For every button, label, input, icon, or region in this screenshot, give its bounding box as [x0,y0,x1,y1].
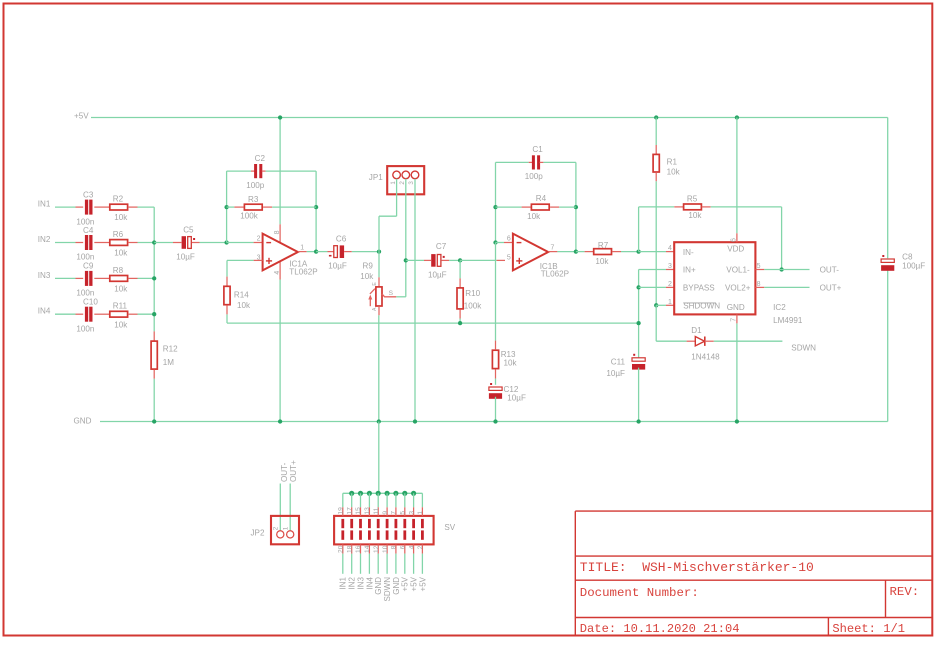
pin SV 20 bar [341,530,344,539]
junction SV bus pin 17 [349,491,354,496]
pin IC2 5 VOL1- [755,269,764,271]
pin R7 left [585,251,594,253]
pin SV 7 bar [395,519,398,528]
svg-text:9: 9 [382,511,389,515]
wire IC1B out [557,251,576,253]
svg-text:4: 4 [274,271,281,275]
pin R1 top [655,145,657,154]
svg-text:R5: R5 [687,195,698,204]
resistor R10 [457,288,463,309]
pin C6 right [344,251,352,253]
pin SV 6 bottom [404,544,406,553]
resistor R6 [110,240,128,246]
wire C1 top right [543,161,576,163]
pin C2 left [251,170,255,172]
pin D1 anode [687,340,696,342]
wire JP1 pin1 to pot top [396,179,398,217]
wire feedback right vertical [315,171,317,252]
svg-text:C10: C10 [83,298,98,307]
title block frame [574,511,576,635]
wire bus to SV pin 1 [421,493,423,507]
svg-text:IN2: IN2 [348,576,357,589]
junction C7 R10 IC1B+ [458,258,462,262]
pin C2 right [262,170,266,172]
wire R7 to IN- node [621,251,639,253]
svg-text:R11: R11 [113,302,128,311]
pin SV 17 top [351,507,353,516]
wire SV pin 18 to IN2 [351,554,353,574]
pin SV 2 bottom [421,544,423,553]
wire JP1 pin3 to GND [414,179,416,422]
pin R12 bottom [153,370,155,379]
wire OUT+ net [764,286,809,288]
pin SV 18 bar [350,530,353,539]
junction IC1B out feedback [574,249,578,253]
pin R7 right [612,251,621,253]
wire R13 to C12 [495,379,497,385]
capacitor C9 [85,271,88,286]
svg-text:IN1: IN1 [339,576,348,589]
connector JP1 [387,166,424,194]
pin SV 3 top [413,507,415,516]
resistor R8 [110,276,128,282]
wire +5V to VDD [736,118,738,234]
svg-text:Document Number:: Document Number: [580,586,699,600]
junction C6 JP1 R9 [377,249,381,253]
pin SV 6 bar [403,530,406,539]
svg-text:A: A [372,307,378,311]
junction IC2 GND rail [735,419,739,423]
wire to C7 [406,259,424,261]
svg-text:OUT-: OUT- [820,266,840,275]
svg-text:10k: 10k [114,249,128,258]
wire IC1B- down to R13 [495,243,497,341]
pin IC1A 2 [254,242,263,244]
svg-text:SV: SV [444,523,455,532]
pin R13 top [495,341,497,350]
wire R12 to GND [153,379,155,422]
svg-text:+5V: +5V [410,576,419,591]
svg-text:VDD: VDD [727,245,744,254]
svg-text:LM4991: LM4991 [773,316,803,325]
svg-text:10µF: 10µF [328,262,347,271]
svg-text:7: 7 [391,511,398,515]
junction R3 right [314,205,318,209]
junction C12 GND [493,419,497,423]
wire C2 top right [266,170,317,172]
pin IC1B 5 [497,259,505,261]
pin SV 18 bottom [351,544,353,553]
svg-text:19: 19 [338,507,345,515]
resistor R3 [244,204,262,210]
svg-text:10µF: 10µF [507,394,526,403]
pin R14 top [226,277,228,286]
pin C1 left [529,161,533,163]
svg-text:10µF: 10µF [428,270,447,279]
svg-text:SDWN: SDWN [383,577,392,602]
svg-text:C9: C9 [83,262,94,271]
svg-text:JP1: JP1 [369,173,383,182]
svg-text:13: 13 [364,507,371,515]
svg-text:10k: 10k [595,257,609,266]
svg-text:2: 2 [399,181,406,185]
junction IC1A out feedback [314,249,318,253]
junction C11 GND [636,419,640,423]
pin SV 12 bar [377,530,380,539]
wire IN- to pin4 [639,251,666,253]
junction IC1B- node [493,240,497,244]
wire R3 to feedback right [272,206,316,208]
svg-text:1: 1 [390,181,397,185]
wire SV ground bus [343,492,423,494]
capacitor C6 (polarized) [334,246,338,258]
resistor R4 [531,204,549,210]
pin SV 17 bar [350,519,353,528]
pin SV 10 bottom [386,544,388,553]
svg-text:R1: R1 [667,158,678,167]
svg-text:10k: 10k [114,213,128,222]
wire R1 node down to D1 [655,305,657,341]
pin SV 16 bar [359,530,362,539]
pin R5 left [674,206,683,208]
pin C10-R11 [94,313,109,315]
svg-text:C1: C1 [532,145,543,154]
junction JP1-2 C7 wiper [404,258,408,262]
pin SV 10 bar [386,530,389,539]
svg-text:3: 3 [408,181,415,185]
svg-text:R8: R8 [113,266,124,275]
junction JP1-3 GND [413,419,417,423]
svg-text:R9: R9 [363,262,374,271]
svg-text:10k: 10k [688,211,702,220]
wire IC2 GND pin to GND rail [736,323,738,421]
pin R13 bottom [495,370,497,379]
capacitor C4 [85,235,88,250]
wire bus to SV pin 7 [395,493,397,507]
wire C5 to IC1A- node [200,242,227,244]
wire SV pin 16 to IN3 [360,554,362,574]
wire D1 to SDWN [714,340,783,342]
svg-text:10k: 10k [360,272,374,281]
wire feedback left vertical [226,171,228,242]
junction SV bus pin 7 [393,491,398,496]
resistor R5 [684,204,702,210]
svg-text:4: 4 [668,245,672,252]
pin JP1 3 pad [411,171,419,179]
svg-text:7: 7 [551,244,555,251]
resistor R12 [151,341,157,369]
pin IC1A 1 [298,251,307,253]
pin R10 top [459,278,461,287]
connector SV [334,516,434,545]
svg-text:1: 1 [300,244,304,251]
svg-text:C7: C7 [436,242,447,251]
wire C11 to GND [638,368,640,422]
resistor R14 [224,286,230,304]
wire SV pin 14 to IN4 [368,554,370,574]
pin C4-R6 [94,242,109,244]
svg-text:TITLE: WSH-Mischverstärker-10: TITLE: WSH-Mischverstärker-10 [580,560,814,575]
svg-text:1: 1 [283,526,290,530]
wire feedback right vertical [575,162,577,251]
svg-text:JP2: JP2 [251,529,265,538]
pin C1 right [540,161,544,163]
wire R10 top [459,260,461,278]
svg-text:100k: 100k [464,302,483,311]
svg-text:+5V: +5V [401,576,410,591]
wire R1 to SHDOWN [655,181,657,305]
junction mix bus IN2 [152,240,156,244]
svg-text:GND: GND [74,416,92,425]
svg-text:1: 1 [668,299,672,306]
pin SV 14 bar [368,530,371,539]
svg-text:2: 2 [257,235,261,242]
svg-text:1: 1 [417,511,424,515]
junction mix bus IN4 [152,312,156,316]
wire C1 top left [496,161,529,163]
svg-text:10: 10 [382,545,389,553]
pin SV 19 bar [341,519,344,528]
svg-text:R14: R14 [234,291,249,300]
wire bus to SV pin 9 [386,493,388,507]
svg-text:OUT-: OUT- [280,462,289,482]
svg-text:16: 16 [355,545,362,553]
wire pot top to R9 [378,252,380,278]
pin SV 11 top [377,507,379,516]
svg-text:IN4: IN4 [38,307,51,316]
pin SV 19 top [342,507,344,516]
pin R5 right [702,206,711,208]
pin SV 16 bottom [360,544,362,553]
wire bus to SV pin 15 [360,493,362,507]
wire R5 left [639,206,675,208]
svg-text:OUT+: OUT+ [289,460,298,482]
pin C9-R8 [94,277,109,279]
svg-text:4: 4 [408,545,415,549]
junction SV bus pin 5 [402,491,407,496]
svg-text:VOL1-: VOL1- [726,266,750,275]
pin C9 left [76,277,84,279]
svg-text:R2: R2 [113,195,124,204]
wire IN+ from bias vertical [639,269,666,271]
wire SV pin 10 to SDWN [386,554,388,574]
pin R14 bottom [226,305,228,314]
wire to R3 [227,206,235,208]
svg-text:6: 6 [400,545,407,549]
svg-text:R3: R3 [248,195,259,204]
pin C5 right [192,242,200,244]
wire to R4 [496,206,522,208]
svg-text:5: 5 [507,255,511,262]
junction R12 GND [152,419,156,423]
pin IC2 6 VDD [736,233,738,242]
pin R2 right [128,206,138,208]
svg-text:6: 6 [507,235,511,242]
pin R10 bottom [459,309,461,318]
svg-text:20: 20 [338,545,345,553]
wire OUT+ to JP2-1 [289,484,291,531]
junction +5V R1 [654,115,658,119]
junction R10 bias [458,321,462,325]
wire bus to SV pin 3 [413,493,415,507]
pin IC2 1 [666,304,674,306]
wire C7 out [449,259,460,261]
wire bus to C5 [154,242,173,244]
junction SV bus pin 13 [367,491,372,496]
wire BYPASS to pin2 [639,286,666,288]
junction +5V IC1A supply [278,115,282,119]
capacitor C5 (polarized) [182,236,186,249]
pin SV 20 bottom [342,544,344,553]
wire SV pin 8 to GND [395,554,397,574]
svg-text:GND: GND [392,577,401,595]
svg-text:10k: 10k [237,301,251,310]
wire out to C6 [316,251,327,253]
wire +5V rail [91,117,888,119]
wire to D1 [656,340,686,342]
svg-text:14: 14 [364,545,371,553]
pin SV 13 top [368,507,370,516]
junction SV bus pin 9 [385,491,390,496]
resistor R2 [110,204,128,210]
wire C12 to GND [495,397,497,422]
capacitor C7 (polarized) [431,254,435,267]
wire R10 to bias line [459,319,461,324]
wire IC1A+ left [227,259,254,261]
resistor R11 [110,311,128,317]
wire IN2 to C4 [55,242,76,244]
wire SV pin 6 to +5V [404,554,406,574]
svg-text:C2: C2 [255,154,266,163]
svg-text:8: 8 [274,230,281,234]
svg-text:IN2: IN2 [38,235,51,244]
pin SV 9 top [386,507,388,516]
junction IN- node [636,249,640,253]
amplifier IC2 [674,242,755,314]
svg-text:3: 3 [408,511,415,515]
svg-text:18: 18 [346,545,353,553]
svg-text:100p: 100p [246,181,265,190]
svg-text:8: 8 [391,545,398,549]
pin IC1B 6 [504,242,513,244]
pin SV 8 bottom [395,544,397,553]
svg-text:REV:: REV: [890,585,920,599]
svg-text:Sheet: 1/1: Sheet: 1/1 [832,622,905,636]
pin IC2 4 [666,251,674,253]
pin R9 top [378,277,380,287]
wire GND rail [100,421,888,423]
svg-text:OUT+: OUT+ [820,284,842,293]
junction bias line C11 [636,321,640,325]
svg-text:BYPASS: BYPASS [683,284,715,293]
pin R6 right [128,242,138,244]
wire bus to SV pin 11 [377,493,379,507]
svg-text:R7: R7 [598,241,609,250]
pin D1 cathode [705,340,714,342]
svg-text:10k: 10k [667,167,681,176]
capacitor C12 (polarized) [489,387,502,390]
svg-text:12: 12 [373,545,380,553]
pin R4 right [550,206,559,208]
svg-text:IN3: IN3 [356,576,365,589]
pin IC1B 7 [548,251,557,253]
pin JP1 2 pad [402,171,410,179]
svg-text:IN3: IN3 [38,271,51,280]
wire IC1A V+ from +5V rail [279,118,281,225]
wire SV pin 2 to +5V [421,554,423,574]
svg-text:E: E [372,282,378,286]
svg-text:Date: 10.11.2020 21:04: Date: 10.11.2020 21:04 [580,622,740,636]
pin SV 13 bar [368,519,371,528]
wire +5V rail down to C8 [887,118,889,259]
pin R4 left [522,206,531,208]
wire node to IC1A pin2 [227,242,254,244]
pin SV 8 bar [395,530,398,539]
wire bus to SV pin 19 [342,493,344,507]
svg-text:10µF: 10µF [176,253,195,262]
svg-text:TL062P: TL062P [541,269,569,278]
wire R11 to mix bus [138,313,155,315]
wire IN4 to C10 [55,313,76,315]
svg-text:10k: 10k [114,285,128,294]
pin R3 right [263,206,272,208]
wire IC1B feedback left vertical [495,162,497,242]
junction SHDOWN R1 D1 [654,303,658,307]
pin C6 left [328,251,334,253]
wire R5 right to VOL1- [711,206,782,208]
svg-text:3: 3 [668,263,672,270]
pin R12 top [153,331,155,340]
svg-text:IN+: IN+ [683,266,696,275]
svg-text:10k: 10k [527,212,541,221]
junction mix bus IN3 [152,276,156,280]
pin R9 bottom [378,306,380,315]
pin SV 15 top [360,507,362,516]
svg-text:IN-: IN- [683,248,694,257]
wire GND to SV bus [378,422,380,494]
pin C7 right [442,259,450,261]
wire IN3 to C9 [55,277,76,279]
svg-text:1N4148: 1N4148 [691,353,720,362]
svg-text:C3: C3 [83,190,94,199]
wire OUT- to JP2-2 [279,484,281,531]
pin IC2 3 [666,269,674,271]
wire bus to SV pin 13 [368,493,370,507]
svg-text:GND: GND [374,577,383,595]
wire bus to SV pin 17 [351,493,353,507]
capacitor C10 [85,307,88,322]
wire node to IC1B [460,259,497,261]
svg-text:IN4: IN4 [365,576,374,589]
junction GND IC1A supply [278,419,282,423]
pin C3 left [76,206,84,208]
pin C7 left [424,259,431,261]
svg-text:R4: R4 [536,194,547,203]
svg-text:R10: R10 [465,289,480,298]
wire wiper to JP1-2 [396,296,406,298]
pin JP2 2 pad [277,531,284,538]
svg-text:C8: C8 [902,252,913,261]
svg-text:GND: GND [727,303,745,312]
wire +5V to R1 [655,118,657,146]
pin R1 bottom [655,172,657,181]
wire IC1A out [307,251,316,253]
wire R9 bottom to GND [378,315,380,421]
pin SV 4 bottom [413,544,415,553]
junction R4 right [574,205,578,209]
svg-text:2: 2 [417,545,424,549]
svg-text:IC2: IC2 [773,303,786,312]
